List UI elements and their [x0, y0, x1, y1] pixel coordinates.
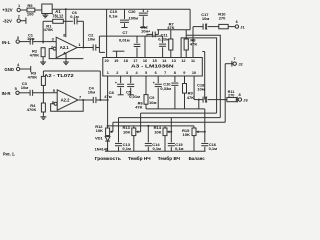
capacitor C14 0.1u: [147, 126, 149, 142]
wire pin1 column: [107, 76, 109, 128]
resistor R4 470K: [41, 103, 45, 112]
svg-text:0,1м: 0,1м: [109, 13, 118, 18]
svg-text:17: 17: [133, 59, 137, 63]
svg-text:6: 6: [236, 19, 239, 24]
svg-text:7: 7: [79, 94, 81, 99]
svg-text:0,01м: 0,01м: [129, 94, 140, 99]
svg-text:Баланс: Баланс: [189, 156, 206, 161]
svg-text:1: 1: [18, 3, 21, 8]
wire: [33, 92, 58, 94]
capacitor C9 10u: [157, 76, 159, 83]
resistor R1 470K: [42, 21, 44, 41]
wire: [63, 20, 73, 22]
svg-text:13: 13: [172, 59, 176, 63]
wire +12V rail: [52, 8, 190, 10]
terminal J3 (pin 8) output R: [236, 99, 238, 101]
resistor R6 47K: [145, 76, 147, 95]
capacitor C5 0.01u: [130, 76, 132, 83]
svg-text:10м: 10м: [202, 16, 209, 21]
svg-text:IN-R: IN-R: [2, 91, 12, 96]
pin 1 output wire: [77, 47, 93, 49]
wire pin10 to C18: [193, 76, 195, 100]
svg-text:0,1м: 0,1м: [122, 146, 131, 151]
svg-text:1: 1: [107, 71, 109, 75]
ground: [44, 14, 46, 16]
resistor R5 100: [27, 8, 35, 12]
svg-text:2: 2: [18, 14, 21, 19]
svg-text:10K: 10K: [183, 132, 190, 137]
wire loop upper: [186, 35, 220, 117]
svg-text:+32V: +32V: [2, 8, 12, 13]
wire rail C: [141, 112, 217, 114]
svg-text:8: 8: [174, 71, 176, 75]
capacitor C15 0.1u: [170, 132, 172, 143]
svg-text:15: 15: [152, 59, 156, 63]
wire: [42, 57, 44, 61]
wire loop to pin12 region: [181, 38, 217, 113]
terminal J2 (pin 7): [225, 63, 233, 65]
svg-text:0,1м: 0,1м: [153, 146, 162, 151]
svg-text:10K: 10K: [96, 128, 103, 133]
capacitor C10 0.33u: [174, 76, 176, 82]
svg-text:47K: 47K: [190, 42, 197, 47]
wire J2 column: [224, 64, 226, 123]
wire from C2 node up and right: [99, 35, 162, 37]
capacitor C16 0.1u: [204, 132, 206, 143]
wire: [35, 9, 42, 11]
svg-text:GND: GND: [4, 67, 14, 72]
svg-text:10м: 10м: [88, 37, 95, 42]
op-amp A2.1 (TL072): [56, 37, 77, 58]
svg-text:7: 7: [164, 71, 166, 75]
wire pin19 stub: [116, 51, 118, 57]
terminal J1 (pin 6) output L: [228, 26, 235, 28]
svg-text:47м: 47м: [104, 94, 111, 99]
wire right rail y30: [157, 29, 190, 31]
svg-text:47K: 47K: [135, 105, 142, 110]
svg-text:8: 8: [239, 92, 242, 97]
svg-text:0,1м: 0,1м: [70, 14, 79, 19]
svg-text:7: 7: [233, 56, 235, 61]
wire pin16: [144, 36, 146, 57]
pin 2 inverting input: [53, 47, 56, 50]
svg-text:Тембр НЧ: Тембр НЧ: [128, 155, 151, 161]
wire pin11 up: [192, 27, 194, 58]
svg-text:0,33м: 0,33м: [158, 36, 169, 41]
svg-text:0,01м: 0,01м: [119, 37, 130, 42]
resistor R2 470K: [42, 42, 44, 44]
wire: [20, 20, 26, 22]
svg-text:10м: 10м: [27, 36, 34, 41]
svg-text:5: 5: [15, 86, 18, 91]
op-amp A2.2 (TL072): [57, 90, 78, 110]
svg-text:C7: C7: [122, 30, 128, 35]
svg-text:470K: 470K: [28, 75, 38, 80]
svg-text:2: 2: [116, 71, 118, 75]
IC A3 - LM1036N: [103, 58, 203, 77]
wire from IC right edge down to C18 node: [202, 51, 204, 53]
svg-text:100м: 100м: [129, 16, 139, 21]
ground: [65, 60, 67, 62]
svg-text:100: 100: [27, 12, 34, 17]
svg-text:-32V: -32V: [3, 18, 12, 23]
svg-text:C20: C20: [128, 9, 136, 14]
ground: [42, 115, 44, 117]
svg-text:10м: 10м: [88, 89, 95, 94]
capacitor C1 10u: [19, 41, 30, 43]
svg-text:18: 18: [124, 59, 128, 63]
wire pin20 to +12V rail: [106, 9, 108, 57]
svg-text:VD1: VD1: [95, 135, 104, 140]
pin 7 output wire: [78, 99, 93, 101]
svg-text:+: +: [148, 30, 150, 34]
svg-text:10K: 10K: [154, 129, 161, 134]
svg-text:0,1м: 0,1м: [175, 146, 184, 151]
svg-text:20: 20: [104, 59, 108, 63]
wire: [77, 20, 83, 22]
capacitor C4 10u: [92, 97, 94, 103]
regulator A1 78L12: [42, 4, 52, 14]
pin 6 inverting input: [54, 102, 57, 105]
resistor R9 47K: [184, 76, 186, 84]
svg-text:Громкость: Громкость: [95, 156, 121, 161]
svg-text:+: +: [147, 10, 149, 14]
svg-text:470K: 470K: [44, 27, 54, 32]
svg-text:J3: J3: [243, 97, 248, 102]
ground: [42, 60, 44, 62]
svg-text:1N4148: 1N4148: [95, 146, 109, 151]
capacitor C8 47u: [120, 76, 122, 83]
svg-text:47K: 47K: [167, 25, 174, 30]
diode VD1 1N4148: [107, 136, 109, 137]
svg-text:10м: 10м: [197, 86, 204, 91]
svg-text:9: 9: [183, 71, 185, 75]
capacitor C2 10u: [92, 44, 94, 50]
svg-text:0,33м: 0,33м: [160, 86, 171, 91]
svg-text:78L12: 78L12: [52, 13, 64, 18]
svg-text:270: 270: [219, 15, 226, 20]
svg-text:10K: 10K: [123, 129, 130, 134]
svg-text:270: 270: [228, 93, 234, 97]
svg-text:1: 1: [78, 42, 81, 47]
feedback wire A2.1: [49, 49, 83, 59]
svg-text:R5: R5: [27, 3, 33, 8]
svg-text:A2.1: A2.1: [60, 45, 70, 50]
svg-text:Рис. 1.: Рис. 1.: [3, 152, 15, 157]
svg-text:A3 - LM1036N: A3 - LM1036N: [131, 64, 174, 69]
svg-text:11: 11: [191, 59, 195, 63]
svg-text:10м: 10м: [21, 85, 28, 90]
svg-text:470K: 470K: [27, 107, 37, 112]
capacitor C6 0.1u: [73, 18, 75, 24]
svg-text:10: 10: [192, 71, 196, 75]
svg-text:IN-L: IN-L: [2, 40, 11, 45]
svg-text:47K: 47K: [187, 95, 194, 100]
wire rail D: [119, 117, 221, 119]
svg-text:470K: 470K: [30, 52, 40, 57]
wire rail B: [146, 108, 205, 110]
wire ground rail: [105, 150, 206, 152]
svg-text:3: 3: [52, 37, 55, 42]
svg-text:3: 3: [126, 71, 128, 75]
svg-text:4: 4: [17, 62, 20, 67]
svg-text:A2 - TL072: A2 - TL072: [44, 73, 74, 78]
svg-text:J1: J1: [240, 24, 245, 29]
svg-text:5: 5: [53, 88, 56, 93]
wire: [20, 68, 31, 70]
svg-text:+: +: [153, 81, 155, 85]
svg-text:4: 4: [135, 71, 138, 75]
capacitor C13 0.1u: [118, 118, 120, 143]
capacitor C3 10u: [19, 92, 30, 94]
wire rail E: [113, 121, 225, 123]
svg-text:3: 3: [17, 35, 20, 40]
svg-text:J2: J2: [238, 62, 243, 67]
wire node in-L: [33, 41, 57, 43]
svg-text:16: 16: [143, 59, 147, 63]
wire: [96, 99, 108, 101]
svg-text:A2.2: A2.2: [61, 98, 71, 103]
wire to A3 input: [96, 47, 100, 49]
svg-text:19: 19: [114, 59, 118, 63]
svg-text:0,1м: 0,1м: [209, 146, 218, 151]
wire pot top bus: [108, 125, 194, 127]
svg-text:5: 5: [145, 71, 147, 75]
wire bias rail: [43, 70, 100, 72]
feedback wire A2.2: [51, 100, 84, 111]
svg-text:Тембр ВЧ: Тембр ВЧ: [158, 155, 180, 161]
capacitor C20 100u: [142, 9, 144, 12]
capacitor C19 0.1u: [124, 9, 126, 19]
svg-text:12: 12: [181, 59, 185, 63]
svg-text:6: 6: [155, 71, 157, 75]
svg-text:+: +: [115, 81, 117, 85]
wire: [20, 9, 27, 11]
svg-text:10м: 10м: [149, 100, 156, 105]
